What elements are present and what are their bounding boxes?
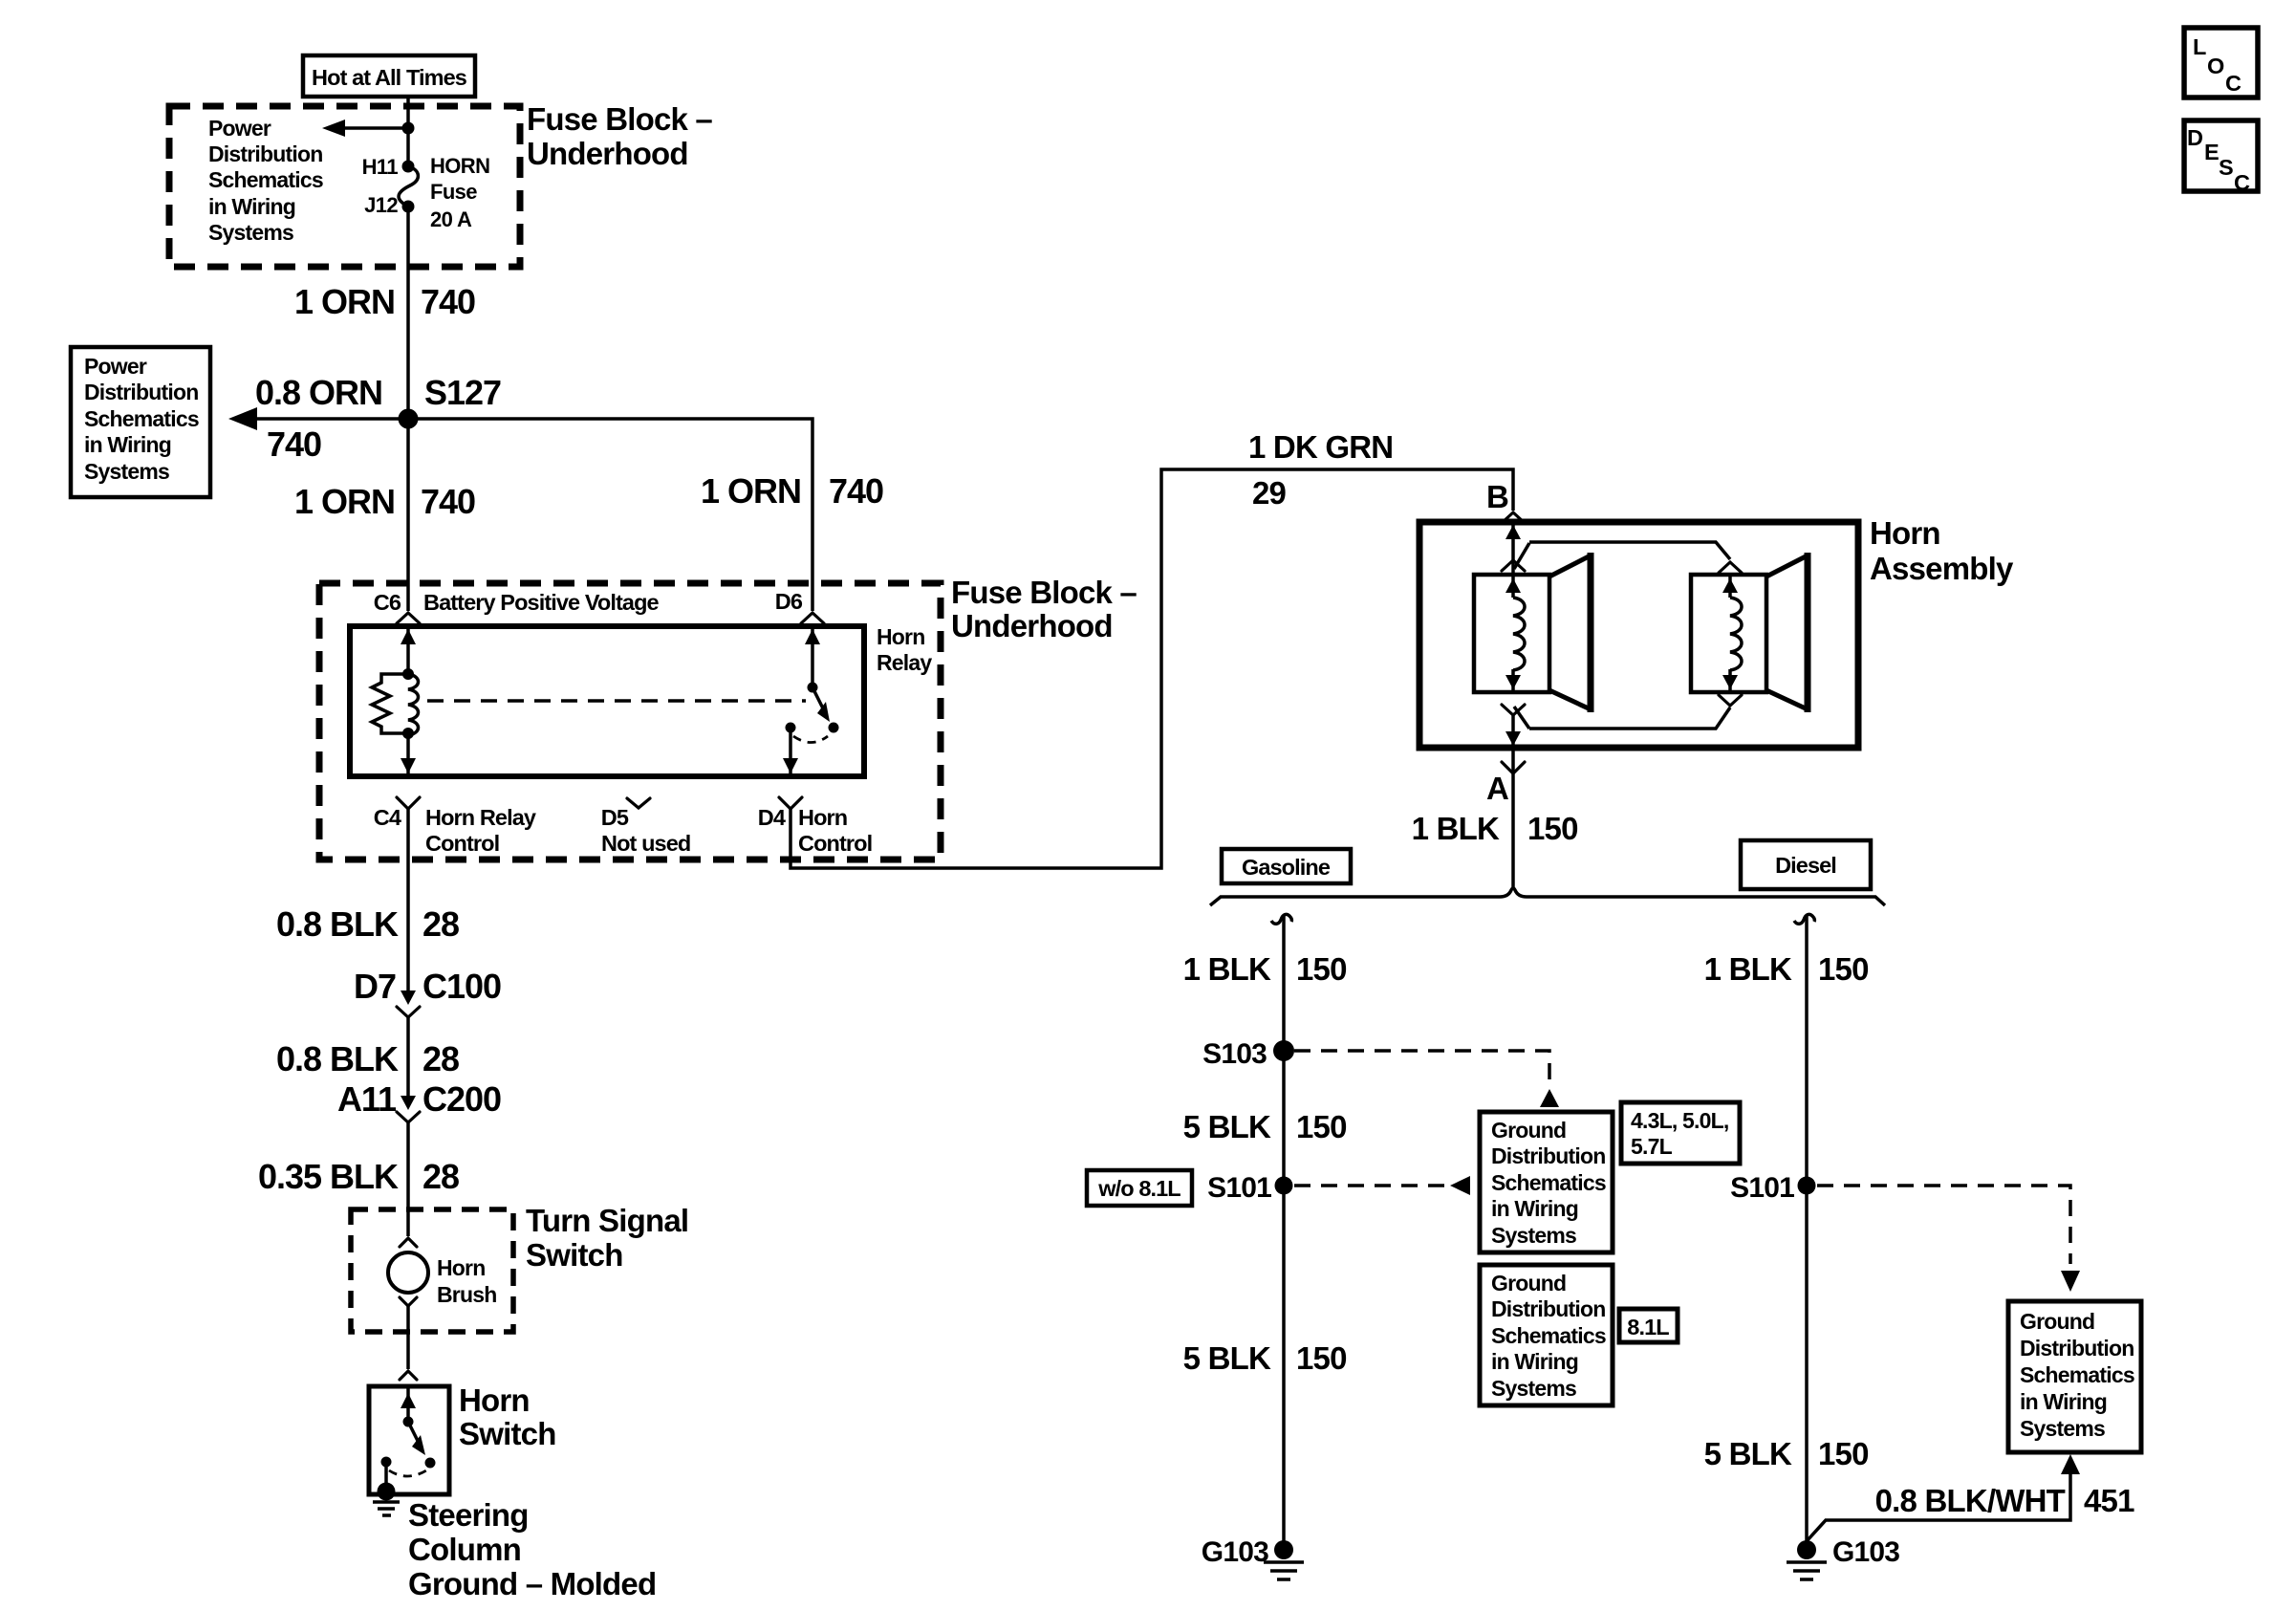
wire label 5 BLK 150 (gasoline lower) (1183, 1340, 1347, 1376)
relay switch blade with arrowhead (812, 687, 824, 710)
brace split gasoline / diesel (1210, 888, 1885, 905)
connector C100 symbol (397, 991, 420, 1017)
wire label 1 BLK 150 (A) (1412, 811, 1578, 846)
svg-text:S127: S127 (424, 373, 501, 412)
right horn top chevron (1719, 562, 1742, 573)
svg-text:Horn: Horn (437, 1255, 485, 1280)
svg-text:0.8 BLK: 0.8 BLK (276, 904, 399, 944)
connector chevron above horn switch (400, 1371, 417, 1380)
svg-text:1 ORN: 1 ORN (294, 282, 395, 321)
horn switch dashed travel arc (389, 1470, 426, 1476)
svg-text:L: L (2193, 34, 2206, 59)
horn assembly box (1419, 522, 1858, 748)
svg-text:Systems: Systems (1491, 1376, 1576, 1401)
svg-text:1 BLK: 1 BLK (1183, 951, 1271, 987)
wire A down to brace (1511, 748, 1515, 889)
node fork to second horn (top) (1502, 543, 1529, 571)
svg-text:740: 740 (829, 471, 883, 511)
horn 2 body (1691, 575, 1766, 692)
connector C200 symbol (397, 1096, 420, 1122)
svg-text:1 DK GRN: 1 DK GRN (1248, 429, 1393, 465)
wire C200 down to turn signal switch (406, 1122, 410, 1236)
svg-text:Schematics: Schematics (1491, 1170, 1606, 1195)
wire arrow branch to power distribution note (342, 126, 408, 130)
svg-text:Control: Control (798, 831, 872, 856)
svg-text:D: D (2187, 125, 2202, 150)
wire dashed S101 to ground distribution reference (1294, 1176, 1470, 1195)
svg-text:740: 740 (421, 282, 475, 321)
svg-text:8.1L: 8.1L (1627, 1315, 1669, 1339)
wire C4 down left column (406, 809, 410, 992)
svg-text:28: 28 (422, 904, 459, 944)
node S127 (399, 409, 419, 429)
svg-text:150: 150 (1296, 951, 1347, 987)
ground G103 (diesel) (1797, 1536, 1899, 1568)
wire label 5 BLK 150 (diesel) (1704, 1436, 1869, 1471)
box 8.1L (1619, 1309, 1678, 1342)
svg-text:Horn Relay: Horn Relay (425, 805, 536, 830)
svg-text:D4: D4 (758, 805, 786, 830)
svg-text:Ground – Molded: Ground – Molded (408, 1566, 656, 1601)
wire label 1 ORN 740 (second) (294, 482, 475, 521)
relay box Horn Relay (350, 626, 864, 776)
svg-text:0.8 ORN: 0.8 ORN (255, 373, 382, 412)
wire label 1 DK GRN 29 (1248, 429, 1393, 511)
pin label D4 Horn Control (758, 805, 873, 856)
svg-text:Systems: Systems (84, 459, 169, 484)
svg-text:G103: G103 (1202, 1536, 1268, 1568)
wire B into left horn with arrow (1511, 525, 1515, 575)
pin D6 connector chevron (801, 613, 824, 623)
svg-text:C200: C200 (422, 1079, 501, 1119)
svg-text:D5: D5 (601, 805, 629, 830)
svg-text:0.35 BLK: 0.35 BLK (258, 1157, 399, 1196)
svg-text:Schematics: Schematics (84, 406, 199, 431)
svg-text:C4: C4 (374, 805, 401, 830)
svg-text:4.3L, 5.0L,: 4.3L, 5.0L, (1631, 1108, 1728, 1133)
svg-text:0.8 BLK/WHT: 0.8 BLK/WHT (1875, 1483, 2066, 1518)
svg-text:O: O (2207, 54, 2224, 78)
wire top link to right horn (1529, 542, 1730, 559)
relay coil parallel resistor (372, 674, 408, 733)
svg-text:Horn: Horn (877, 624, 924, 649)
relay switch pivot dot (808, 683, 818, 693)
node H11 dot (402, 161, 415, 173)
horn switch pivot dot (403, 1417, 414, 1427)
svg-text:Horn: Horn (459, 1382, 530, 1418)
svg-text:in Wiring: in Wiring (84, 432, 171, 457)
label Steering Column Ground - Molded (408, 1497, 656, 1601)
horn 2 mouth (speaker flare) (1766, 553, 1808, 712)
svg-text:5 BLK: 5 BLK (1183, 1340, 1271, 1376)
box Hot at All Times (303, 55, 475, 97)
svg-text:Steering: Steering (408, 1497, 529, 1533)
horn switch blade with arrowhead (408, 1422, 419, 1443)
node fork from second horn (bottom) (1529, 695, 1742, 729)
wire label 5 BLK 150 (gasoline upper) (1183, 1109, 1347, 1144)
svg-text:Brush: Brush (437, 1282, 496, 1307)
svg-text:w/o 8.1L: w/o 8.1L (1097, 1176, 1180, 1201)
svg-text:Underhood: Underhood (951, 608, 1113, 643)
label Fuse Block - Underhood (top) (527, 101, 712, 171)
horn 1 mouth (speaker flare) (1549, 553, 1591, 712)
connector label A11 C200 (337, 1079, 501, 1119)
svg-text:Systems: Systems (208, 220, 293, 245)
wire S127 branch right and down to D6 (408, 419, 812, 611)
svg-text:740: 740 (267, 425, 321, 464)
svg-text:S103: S103 (1202, 1038, 1267, 1070)
relay coil branch: wire C6 into coil (406, 626, 410, 674)
svg-text:Switch: Switch (526, 1237, 623, 1273)
svg-text:Power: Power (208, 116, 271, 141)
svg-text:740: 740 (421, 482, 475, 521)
svg-text:Control: Control (425, 831, 499, 856)
box Ground Distribution Schematics (diesel) (2008, 1301, 2141, 1452)
svg-text:1 BLK: 1 BLK (1704, 951, 1792, 987)
svg-text:Distribution: Distribution (84, 380, 198, 404)
label Horn Relay (877, 624, 932, 675)
relay switch: wire D6 down to pivot (811, 626, 814, 687)
relay switch moving contact dot (829, 723, 839, 733)
horn 1 body (1474, 575, 1549, 692)
label Horn Brush (437, 1255, 496, 1307)
wire label 1 ORN 740 (branch) (701, 471, 883, 511)
svg-text:HORN: HORN (430, 154, 489, 178)
pin D4 connector chevron (779, 797, 802, 809)
svg-text:C100: C100 (422, 967, 501, 1006)
wire dashed S103 to ground distribution reference (1294, 1051, 1559, 1107)
svg-text:Distribution: Distribution (1491, 1296, 1605, 1321)
svg-text:Distribution: Distribution (2020, 1336, 2134, 1361)
svg-text:5 BLK: 5 BLK (1183, 1109, 1271, 1144)
svg-text:C: C (2234, 170, 2250, 195)
box 4.3L 5.0L 5.7L (1621, 1102, 1740, 1164)
wire from Hot at All Times down to H11 (406, 97, 410, 163)
horn switch moving contact dot (425, 1458, 436, 1469)
box Gasoline (1222, 849, 1351, 883)
horn switch fixed contact dot (381, 1457, 392, 1468)
box Power Distribution Schematics (left) (71, 347, 210, 497)
node coil bottom dot (402, 728, 414, 739)
svg-text:1 ORN: 1 ORN (701, 471, 801, 511)
box LOC (2184, 28, 2258, 98)
svg-text:Fuse Block –: Fuse Block – (951, 575, 1137, 610)
svg-text:H11: H11 (362, 155, 399, 179)
svg-text:Hot at All Times: Hot at All Times (312, 65, 467, 90)
pin A chevron (1502, 762, 1525, 773)
svg-text:C6: C6 (374, 590, 401, 615)
svg-text:1 BLK: 1 BLK (1412, 811, 1500, 846)
pin D5 chevron mark (627, 798, 650, 808)
pin B chevron (1502, 512, 1525, 523)
svg-text:20 A: 20 A (430, 207, 472, 231)
svg-text:Diesel: Diesel (1775, 853, 1836, 878)
svg-text:Distribution: Distribution (208, 142, 322, 166)
svg-text:5 BLK: 5 BLK (1704, 1436, 1792, 1471)
pin label C6 Battery Positive Voltage (374, 590, 660, 615)
svg-text:Fuse Block –: Fuse Block – (527, 101, 712, 137)
svg-text:28: 28 (422, 1157, 459, 1196)
turn signal switch dashed box (351, 1209, 513, 1332)
svg-text:S: S (2219, 155, 2233, 180)
node S103 (1273, 1040, 1294, 1061)
svg-text:1 ORN: 1 ORN (294, 482, 395, 521)
horn brush circle (388, 1252, 428, 1293)
note Power Distribution Schematics in Wiring Systems (top) (208, 116, 323, 245)
fuse block underhood dashed box (relay) (319, 583, 941, 860)
pin C4 connector chevron (397, 797, 420, 809)
svg-text:Battery Positive Voltage: Battery Positive Voltage (423, 590, 660, 615)
wire S127 arrow to power distribution box (254, 417, 408, 421)
svg-text:B: B (1486, 479, 1508, 514)
svg-text:D6: D6 (775, 589, 803, 614)
svg-text:29: 29 (1252, 475, 1287, 511)
ground symbol G103 (gasoline) (1264, 1562, 1304, 1579)
fuse block underhood dashed box (top) (169, 106, 520, 267)
node J12 dot (402, 201, 415, 213)
wire label 1 BLK 150 (gasoline) (1183, 951, 1347, 987)
svg-text:in Wiring: in Wiring (208, 194, 295, 219)
svg-text:J12: J12 (364, 193, 398, 217)
wire coil to C4 with arrow (406, 733, 410, 776)
wire label 0.35 BLK 28 (258, 1157, 459, 1196)
squiggle start gasoline branch (1271, 914, 1291, 924)
ground symbol G103 (diesel) (1787, 1562, 1827, 1579)
wire label 0.8 ORN 740 (255, 373, 382, 464)
svg-text:Systems: Systems (1491, 1223, 1576, 1248)
svg-text:Ground: Ground (1491, 1118, 1566, 1143)
wire brush down to horn switch (406, 1306, 410, 1369)
svg-text:Horn: Horn (798, 805, 847, 830)
box Ground Distribution Schematics (4.3L) (1480, 1112, 1613, 1252)
wire S127 down to C6 (406, 419, 410, 611)
pin label D5 Not used (601, 805, 691, 856)
box DESC (2184, 120, 2258, 195)
wire label 0.8 BLK 28 (second) (276, 1039, 459, 1078)
svg-text:S101: S101 (1207, 1172, 1271, 1204)
svg-text:Schematics: Schematics (2020, 1362, 2134, 1387)
svg-text:150: 150 (1296, 1340, 1347, 1376)
wire J12 down to S127 (406, 207, 410, 419)
horn 1 coil with arrows (1505, 575, 1525, 692)
value label HORN Fuse 20 A (430, 154, 489, 231)
wire fixed contact to ground (384, 1462, 388, 1491)
relay switch fixed contact dot (786, 723, 796, 733)
pin label C4 Horn Relay Control (374, 805, 536, 856)
svg-text:A: A (1486, 771, 1508, 806)
svg-text:Relay: Relay (877, 650, 932, 675)
pin C6 connector chevron (397, 613, 420, 623)
svg-text:150: 150 (1296, 1109, 1347, 1144)
label Fuse Block - Underhood (relay) (951, 575, 1137, 643)
node S101 (gasoline) (1275, 1177, 1293, 1195)
horn brush bottom chevron (400, 1297, 417, 1306)
label Horn Assembly (1870, 515, 2014, 586)
svg-text:150: 150 (1818, 1436, 1869, 1471)
wire diesel column (1805, 915, 1809, 1550)
wire label 1 ORN 740 (294, 282, 475, 321)
svg-text:G103: G103 (1832, 1536, 1899, 1568)
wire C100 to C200 (406, 1017, 410, 1096)
wire dashed S101 diesel to ground distribution reference (1817, 1186, 2080, 1292)
svg-text:in Wiring: in Wiring (1491, 1196, 1578, 1221)
box Ground Distribution Schematics (8.1L) (1480, 1265, 1613, 1405)
svg-text:5.7L: 5.7L (1631, 1134, 1673, 1159)
wire left horn down out of box with arrow (1511, 715, 1515, 748)
node junction dot at arrow branch (402, 122, 415, 135)
wire fixed contact down to D4 with arrow (789, 728, 792, 776)
node coil top dot (402, 668, 414, 680)
svg-text:Schematics: Schematics (1491, 1323, 1606, 1348)
horn 2 coil with arrows (1722, 575, 1742, 692)
svg-text:in Wiring: in Wiring (2020, 1389, 2107, 1414)
wire label 0.8 BLK/WHT 451 (1875, 1483, 2134, 1518)
svg-text:Column: Column (408, 1532, 521, 1567)
node S101 (diesel) (1798, 1177, 1816, 1195)
wire from ground distribution box down to diesel G103 (1807, 1454, 2080, 1541)
svg-text:Not used: Not used (601, 831, 690, 856)
horn brush top chevron (400, 1238, 417, 1247)
svg-text:Fuse: Fuse (430, 180, 477, 204)
fuse HORN 20 A symbol (399, 166, 418, 207)
svg-text:Switch: Switch (459, 1416, 556, 1451)
svg-text:E: E (2204, 140, 2219, 164)
svg-text:Underhood: Underhood (527, 136, 688, 171)
ground symbol (steering column) (373, 1502, 400, 1515)
box w/o 8.1L (1087, 1170, 1192, 1206)
wire bottom link joins left horn wire (1502, 705, 1529, 729)
svg-text:Systems: Systems (2020, 1416, 2105, 1441)
wire label 0.8 BLK 28 (276, 904, 459, 944)
svg-text:Power: Power (84, 354, 147, 379)
svg-text:Distribution: Distribution (1491, 1143, 1605, 1168)
svg-text:D7: D7 (354, 967, 396, 1006)
svg-text:150: 150 (1527, 811, 1578, 846)
label Horn Switch (459, 1382, 556, 1451)
svg-text:C: C (2225, 71, 2242, 96)
ground G103 (gasoline) (1202, 1536, 1293, 1568)
svg-text:Assembly: Assembly (1870, 551, 2014, 586)
horn switch box (369, 1386, 449, 1494)
wire D4 to horn assembly B (long route) (791, 469, 1513, 868)
svg-text:Turn Signal: Turn Signal (526, 1203, 688, 1238)
relay link dashed line coil to switch (427, 699, 806, 703)
horn switch wire in with arrow (406, 1386, 410, 1422)
svg-text:Ground: Ground (1491, 1271, 1566, 1295)
svg-text:0.8 BLK: 0.8 BLK (276, 1039, 399, 1078)
svg-text:Schematics: Schematics (208, 167, 323, 192)
squiggle start diesel branch (1794, 914, 1814, 924)
svg-text:150: 150 (1818, 951, 1869, 987)
ground steering column: dot (378, 1483, 396, 1501)
label Turn Signal Switch (526, 1203, 688, 1273)
relay switch dashed travel arc (793, 736, 828, 743)
relay coil (inductor) (408, 674, 419, 735)
svg-text:in Wiring: in Wiring (1491, 1349, 1578, 1374)
svg-text:Gasoline: Gasoline (1242, 855, 1331, 880)
svg-text:A11: A11 (337, 1079, 397, 1119)
box Diesel (1741, 840, 1871, 889)
svg-text:Horn: Horn (1870, 515, 1940, 551)
svg-text:451: 451 (2084, 1483, 2134, 1518)
connector label D7 C100 (354, 967, 501, 1006)
svg-text:S101: S101 (1730, 1172, 1794, 1204)
svg-text:28: 28 (422, 1039, 459, 1078)
wire label 1 BLK 150 (diesel) (1704, 951, 1869, 987)
wire gasoline column (1282, 915, 1286, 1550)
svg-text:Ground: Ground (2020, 1309, 2094, 1334)
